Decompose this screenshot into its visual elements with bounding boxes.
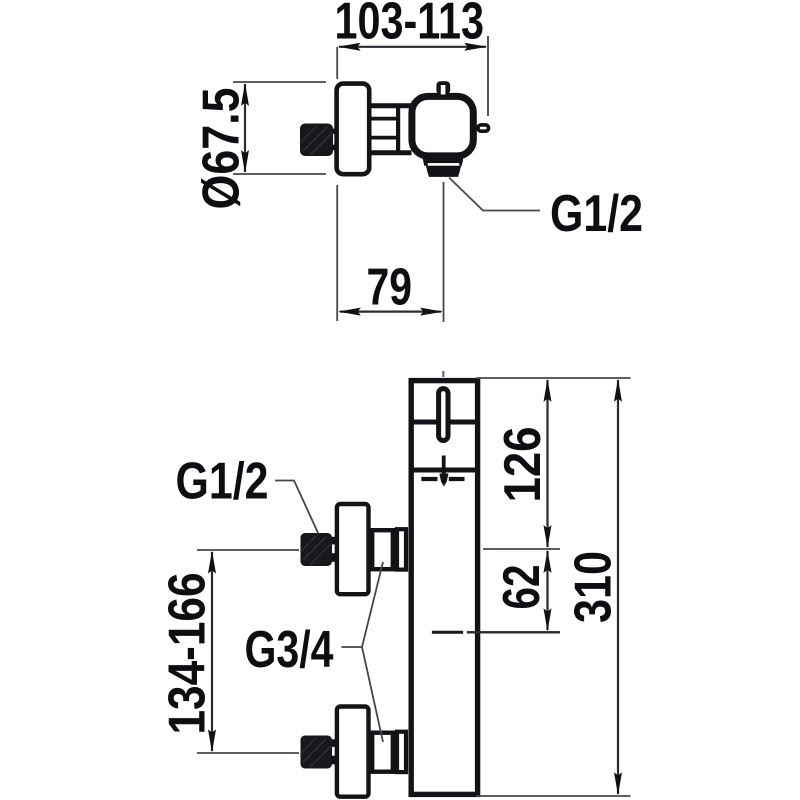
extension line right of 103-113 [487, 36, 489, 116]
extension line top of 67.5 [233, 81, 326, 83]
upper nut tabs [332, 537, 338, 545]
dim line 67.5 [244, 84, 246, 172]
lower wall escutcheon [337, 707, 369, 797]
right nub of body [478, 125, 489, 131]
svg-text:310: 310 [565, 551, 623, 623]
temperature knob (hatched, top view) [300, 124, 333, 157]
dim line 62 [546, 551, 548, 630]
dim line 103-113 [339, 46, 486, 48]
extension line left of 103-113 [336, 47, 338, 79]
upper wall escutcheon [337, 504, 369, 594]
mixer body (rounded square, top view) [412, 96, 473, 155]
wall escutcheon (side view) [337, 84, 370, 175]
extension line bottom of 67.5 [233, 173, 326, 175]
extension line bottom of 134-166 [197, 752, 299, 754]
svg-text:G1/2: G1/2 [176, 453, 269, 511]
lower connector nut [397, 732, 406, 772]
mixer body column [411, 381, 477, 795]
center mark dashes [421, 477, 464, 481]
dim line 126 [546, 380, 548, 547]
extension line right of 79 (outlet centerline) [443, 182, 445, 322]
knob collar tabs [332, 129, 338, 134]
leader lines G3/4 to both connectors [342, 562, 384, 742]
svg-text:62: 62 [493, 565, 551, 610]
center mark arrow blob [439, 474, 448, 487]
upper connector tube G3/4 [372, 530, 393, 569]
lower connector tube G3/4 [372, 733, 393, 772]
outlet axis line through body edge [467, 631, 560, 633]
svg-text:134-166: 134-166 [159, 573, 217, 735]
dim line 310 [617, 380, 619, 794]
extension line left of 79 [336, 185, 338, 321]
upper connector nut [397, 529, 406, 569]
diverter slot handle [439, 389, 448, 441]
svg-text:126: 126 [494, 427, 552, 503]
center tick above body [442, 371, 444, 377]
svg-text:G1/2: G1/2 [550, 185, 643, 243]
outlet collar [422, 153, 465, 166]
extension line outlet axis to 62 [467, 631, 560, 633]
dim line 134-166 [211, 552, 213, 751]
center mark vertical [442, 456, 446, 475]
body section line lower [409, 468, 480, 473]
outlet axis dash inside body [432, 631, 463, 634]
svg-text:G3/4: G3/4 [245, 621, 334, 679]
leader line G1/2 to upper nut [275, 481, 319, 535]
body section line upper [409, 420, 480, 425]
leader line to G1/2 (top) [449, 178, 540, 211]
connector body between escutcheon and mixer [371, 106, 412, 153]
svg-text:79: 79 [367, 259, 413, 317]
top nub of body [436, 81, 450, 94]
dim line 79 [340, 311, 441, 313]
lower nut tabs [332, 739, 338, 747]
lower wall connection: hatched nut G1/2 [301, 736, 333, 769]
extension line top of 134-166 [197, 549, 299, 551]
outlet aerator G1/2 [426, 166, 461, 177]
svg-text:Ø67.5: Ø67.5 [193, 88, 251, 210]
extension line bottom right (body bottom) [476, 795, 631, 797]
svg-text:103-113: 103-113 [335, 0, 485, 51]
upper wall connection: hatched nut G1/2 [301, 533, 333, 566]
outlet slit [428, 163, 460, 166]
extension line top right (body top) [476, 377, 631, 379]
extension line mid (connection axis) [483, 548, 560, 550]
